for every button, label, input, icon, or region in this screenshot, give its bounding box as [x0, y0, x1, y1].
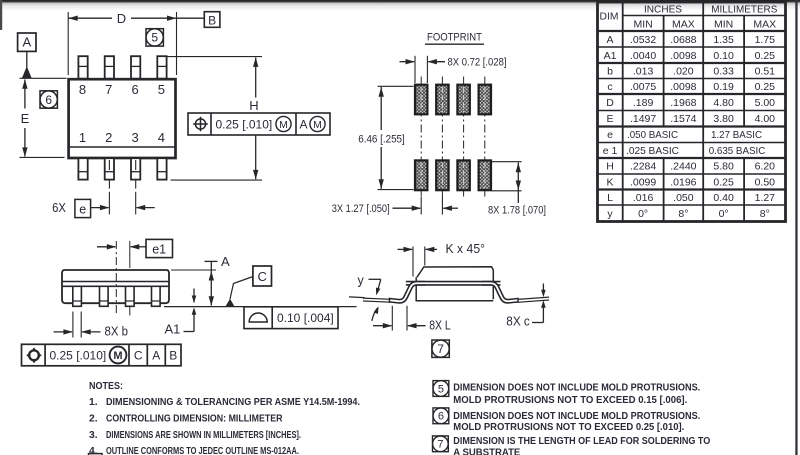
svg-text:.050: .050: [673, 192, 694, 204]
svg-text:e: e: [607, 129, 613, 141]
svg-text:4: 4: [158, 130, 165, 145]
svg-text:A SUBSTRATE: A SUBSTRATE: [453, 447, 520, 455]
body inner line: [70, 146, 175, 148]
flag 6: [433, 408, 449, 424]
svg-text:MAX: MAX: [672, 19, 695, 31]
datum A box and leader: [18, 33, 36, 68]
datum B box: [204, 12, 220, 28]
svg-text:A: A: [152, 349, 160, 363]
datum C box: [253, 266, 272, 286]
svg-text:0°: 0°: [638, 208, 648, 220]
pin 7 lead: [105, 56, 114, 78]
svg-text:5: 5: [151, 31, 158, 45]
svg-text:.2440: .2440: [670, 161, 696, 173]
pad 2 bottom: [436, 160, 448, 190]
svg-text:1.27 BASIC: 1.27 BASIC: [711, 129, 762, 141]
svg-text:0.51: 0.51: [755, 65, 776, 77]
note flag 7: [432, 340, 449, 357]
svg-text:0.50: 0.50: [755, 176, 776, 188]
svg-text:2: 2: [105, 130, 112, 145]
svg-text:.020: .020: [673, 65, 694, 77]
svg-text:A: A: [299, 118, 307, 132]
svg-text:M: M: [113, 350, 122, 362]
pin 2 center tick below: [108, 180, 110, 189]
lead 3 centerline extension: [129, 241, 131, 316]
svg-text:2.: 2.: [89, 414, 98, 425]
svg-text:6: 6: [438, 411, 444, 423]
page top shadow strip: [0, 0, 800, 11]
svg-text:.1968: .1968: [670, 97, 696, 109]
svg-text:e 1: e 1: [603, 145, 618, 157]
table horizontals: [623, 15, 786, 17]
svg-text:D: D: [606, 97, 614, 109]
dimension D: [68, 11, 204, 75]
svg-text:0.25 [.010]: 0.25 [.010]: [216, 118, 273, 132]
dimension e1: [97, 239, 173, 257]
dimension 6X e: [52, 192, 155, 218]
E top extension line: [20, 77, 67, 79]
svg-text:MIN: MIN: [714, 19, 733, 31]
svg-text:1.: 1.: [89, 397, 98, 408]
svg-text:K: K: [606, 176, 613, 188]
svg-text:.0098: .0098: [670, 81, 696, 93]
svg-text:1.27: 1.27: [755, 192, 776, 204]
svg-text:8X 0.72 [.028]: 8X 0.72 [.028]: [448, 56, 507, 68]
svg-text:7: 7: [437, 439, 443, 451]
svg-text:.025 BASIC: .025 BASIC: [626, 145, 679, 157]
svg-text:.189: .189: [633, 97, 654, 109]
svg-text:5.80: 5.80: [713, 161, 734, 173]
pin 8 lead: [78, 56, 87, 78]
svg-text:7: 7: [437, 342, 444, 356]
svg-text:6X: 6X: [52, 201, 66, 215]
svg-text:5: 5: [438, 383, 444, 395]
feature control frame position 0.25 C A B: [22, 344, 182, 366]
svg-text:A: A: [221, 254, 230, 269]
pad 4 bottom: [479, 160, 491, 190]
svg-text:FOOTPRINT: FOOTPRINT: [427, 32, 482, 44]
dimension A1: [165, 289, 197, 337]
svg-text:b: b: [607, 65, 613, 77]
svg-text:4.00: 4.00: [755, 113, 776, 125]
end body outline: [416, 267, 494, 301]
E bottom extension line: [20, 156, 65, 158]
svg-text:3X 1.27 [.050]: 3X 1.27 [.050]: [332, 203, 390, 215]
svg-text:1.75: 1.75: [755, 34, 776, 46]
svg-text:INCHES: INCHES: [644, 4, 682, 16]
svg-text:.050 BASIC: .050 BASIC: [627, 129, 678, 141]
pin numbers top row 8 7 6 5: [79, 82, 165, 97]
svg-text:3.80: 3.80: [713, 113, 734, 125]
svg-text:DIMENSION DOES NOT INCLUDE MOL: DIMENSION DOES NOT INCLUDE MOLD PROTRUSI…: [453, 411, 700, 422]
pin 1 lead: [78, 158, 87, 179]
feature control frame U1 (position 0.25 A): [188, 113, 330, 135]
svg-text:0.635 BASIC: 0.635 BASIC: [709, 145, 766, 157]
svg-text:3: 3: [131, 130, 138, 145]
svg-text:c: c: [607, 81, 612, 93]
svg-text:0°: 0°: [719, 208, 729, 220]
pad 1 top: [415, 85, 427, 115]
svg-text:0.19: 0.19: [713, 81, 734, 93]
svg-text:.0098: .0098: [670, 50, 696, 62]
dimension 8X b: [54, 312, 129, 339]
dimension E: [21, 79, 30, 157]
svg-text:D: D: [117, 11, 126, 26]
svg-text:A1: A1: [604, 50, 617, 62]
svg-text:NOTES:: NOTES:: [89, 381, 123, 392]
lead shoulder band: [406, 281, 501, 286]
svg-text:.1497: .1497: [630, 113, 656, 125]
svg-text:M: M: [279, 119, 288, 131]
pin 5 lead: [157, 56, 166, 78]
dimension A: [171, 254, 230, 306]
pin 2 lead: [105, 158, 114, 179]
svg-text:0.40: 0.40: [713, 192, 734, 204]
svg-text:MIN: MIN: [633, 19, 652, 31]
svg-text:8°: 8°: [678, 208, 688, 220]
svg-text:CONTROLLING DIMENSION: MILLIME: CONTROLLING DIMENSION: MILLIMETER: [106, 414, 283, 425]
svg-text:DIMENSION IS THE LENGTH OF LEA: DIMENSION IS THE LENGTH OF LEAD FOR SOLD…: [453, 436, 710, 447]
pin 3 center tick below: [135, 180, 137, 189]
svg-text:8X 1.78 [.070]: 8X 1.78 [.070]: [488, 205, 546, 217]
svg-text:DIM: DIM: [600, 10, 619, 22]
pad centerlines: [421, 77, 485, 200]
svg-text:8X c: 8X c: [506, 315, 530, 329]
svg-text:OUTLINE CONFORMS TO JEDEC OUTL: OUTLINE CONFORMS TO JEDEC OUTLINE MS-012…: [106, 446, 299, 455]
pad 4 top: [479, 85, 491, 115]
svg-text:y: y: [358, 273, 365, 287]
svg-text:DIMENSIONS ARE SHOWN IN MILLIM: DIMENSIONS ARE SHOWN IN MILLIMETERS [INC…: [106, 430, 301, 441]
svg-text:.0688: .0688: [670, 34, 696, 46]
svg-text:8: 8: [79, 82, 86, 97]
datum C triangle: [226, 299, 235, 307]
svg-text:e1: e1: [152, 242, 166, 256]
svg-text:K x 45°: K x 45°: [446, 242, 486, 256]
svg-text:MAX: MAX: [753, 19, 776, 31]
right gull-wing lead: [482, 283, 518, 303]
side lead 2: [100, 286, 109, 306]
note flag 5: [146, 29, 163, 46]
table body text: [603, 34, 775, 220]
svg-text:A: A: [606, 34, 613, 46]
svg-text:.016: .016: [633, 192, 654, 204]
dimension 3X 1.27: [332, 197, 458, 215]
table header text: [600, 4, 778, 31]
svg-text:.1574: .1574: [670, 113, 696, 125]
svg-text:0.25: 0.25: [713, 176, 734, 188]
dimension 8X 0.72: [400, 56, 507, 83]
svg-text:1: 1: [79, 130, 86, 145]
pad 3 top: [457, 85, 469, 115]
svg-text:M: M: [313, 119, 322, 131]
svg-text:6: 6: [45, 93, 52, 107]
svg-text:0.10: 0.10: [713, 50, 734, 62]
svg-text:E: E: [606, 113, 613, 125]
svg-text:H: H: [249, 98, 258, 113]
svg-text:.0075: .0075: [630, 81, 656, 93]
svg-text:0.10 [.004]: 0.10 [.004]: [277, 311, 334, 325]
note flag 6: [40, 91, 57, 108]
svg-text:A: A: [22, 35, 31, 50]
pin 3 lead: [131, 158, 140, 179]
page left corner edge: [0, 0, 2, 30]
datum A triangle: [22, 66, 32, 78]
package body outline: [69, 79, 176, 158]
svg-text:.0040: .0040: [630, 50, 656, 62]
svg-text:MILLIMETERS: MILLIMETERS: [711, 4, 777, 16]
svg-text:E: E: [21, 111, 30, 126]
svg-text:0.25: 0.25: [755, 50, 776, 62]
notes right column flags: [433, 381, 449, 452]
flag 5: [433, 381, 449, 397]
dimension 6.46: [358, 86, 413, 189]
svg-text:L: L: [607, 192, 613, 204]
svg-text:B: B: [169, 349, 177, 363]
datum C leader: [230, 277, 253, 300]
side lead 1: [73, 286, 82, 306]
note flag 5 cut at bottom: [89, 454, 103, 455]
svg-text:C: C: [258, 269, 267, 284]
svg-text:B: B: [208, 13, 216, 27]
pin 6 lead: [131, 56, 140, 78]
side body outline: [62, 270, 169, 303]
svg-text:7: 7: [105, 82, 112, 97]
svg-text:.0196: .0196: [670, 176, 696, 188]
svg-text:6.46 [.255]: 6.46 [.255]: [358, 133, 405, 145]
svg-text:0.33: 0.33: [713, 65, 734, 77]
seating plane line: [164, 306, 357, 308]
notes right column text: [453, 382, 710, 455]
svg-text:MOLD PROTRUSIONS NOT TO EXCEED: MOLD PROTRUSIONS NOT TO EXCEED 0.25 [.01…: [453, 422, 684, 433]
pin 4 lead: [157, 158, 166, 179]
svg-text:0.25 [.010]: 0.25 [.010]: [50, 349, 107, 363]
svg-text:MOLD PROTRUSIONS NOT TO EXCEED: MOLD PROTRUSIONS NOT TO EXCEED 0.15 [.00…: [453, 395, 687, 406]
pin numbers bottom row 1 2 3 4: [79, 130, 165, 145]
side lead 3: [126, 286, 135, 306]
svg-text:6: 6: [131, 82, 138, 97]
svg-text:.0099: .0099: [630, 176, 656, 188]
H bottom extension line: [171, 179, 263, 181]
pad 2 top: [436, 85, 448, 115]
dimension 8X c: [506, 284, 549, 329]
svg-text:4.80: 4.80: [713, 97, 734, 109]
svg-text:DIMENSIONING & TOLERANCING PER: DIMENSIONING & TOLERANCING PER ASME Y14.…: [106, 397, 360, 408]
dimension H: [249, 57, 258, 179]
svg-text:C: C: [134, 349, 143, 363]
svg-text:H: H: [606, 161, 614, 173]
svg-text:y: y: [607, 208, 613, 220]
notes left column: [89, 381, 360, 455]
svg-text:6.20: 6.20: [755, 161, 776, 173]
page right border line: [795, 0, 797, 455]
feature control frame flatness 0.10: [244, 307, 338, 329]
dimension K x 45: [398, 242, 486, 276]
svg-text:3.: 3.: [89, 430, 98, 441]
table outer border: [598, 2, 786, 222]
svg-text:1.35: 1.35: [713, 34, 734, 46]
svg-text:8°: 8°: [760, 208, 770, 220]
dimension y: [349, 273, 391, 321]
svg-text:.2284: .2284: [630, 161, 656, 173]
svg-text:A1: A1: [165, 322, 181, 337]
svg-text:5: 5: [158, 82, 165, 97]
svg-text:.0532: .0532: [630, 34, 656, 46]
svg-text:DIMENSION DOES NOT INCLUDE MOL: DIMENSION DOES NOT INCLUDE MOLD PROTRUSI…: [453, 382, 700, 393]
left gull-wing lead: [389, 283, 425, 303]
H top extension line: [167, 56, 262, 58]
dimension 8X L: [373, 306, 451, 333]
package centerline: [115, 241, 117, 313]
flag 7: [433, 436, 449, 452]
svg-text:0.25: 0.25: [755, 81, 776, 93]
footprint title: [425, 32, 484, 45]
dimension 8X 1.78: [488, 162, 546, 217]
svg-text:e: e: [79, 202, 86, 216]
pad 1 bottom: [415, 160, 427, 190]
table verticals: [622, 2, 624, 222]
pad 3 bottom: [457, 160, 469, 190]
side lead 4: [152, 286, 161, 306]
pad centerline highlights: [421, 87, 485, 188]
svg-text:8X b: 8X b: [105, 325, 129, 339]
svg-text:5.00: 5.00: [755, 97, 776, 109]
svg-text:.013: .013: [633, 65, 654, 77]
svg-text:8X L: 8X L: [429, 319, 451, 333]
